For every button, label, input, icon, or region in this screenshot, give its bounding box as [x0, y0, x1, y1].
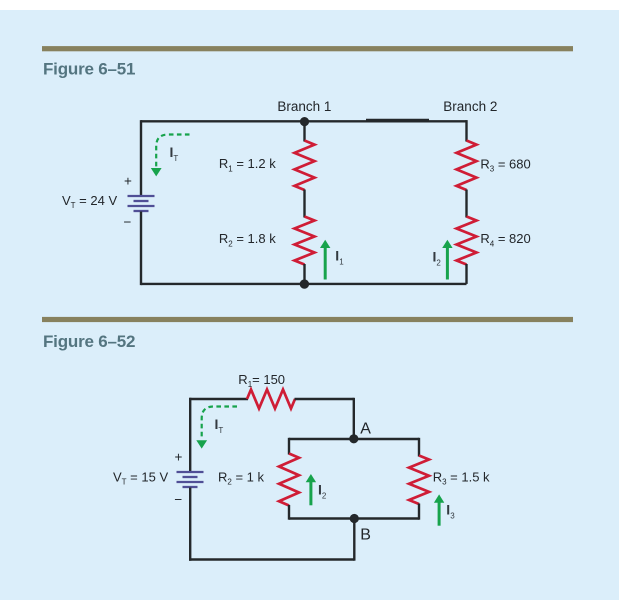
resistor R2 (1.8 k): [295, 217, 315, 265]
svg-text:Branch 1: Branch 1: [277, 99, 331, 114]
svg-text:−: −: [174, 492, 182, 507]
current arrow IT dashed (circuit 1): [151, 135, 190, 177]
svg-text:B: B: [360, 526, 371, 543]
wire: top horizontal of circuit 1: [141, 120, 467, 122]
wire: bottom horizontal of circuit 1: [141, 283, 467, 285]
resistor R2 (1 k): [279, 454, 299, 506]
svg-text:R4 = 820: R4 = 820: [480, 231, 530, 248]
rule above Figure 6-52: [42, 317, 573, 322]
svg-text:R2 = 1 k: R2 = 1 k: [218, 469, 265, 486]
current arrow I2 (circuit 1): [442, 240, 452, 280]
resistor R1 (1.2 k): [295, 141, 315, 191]
wire: branch 2 top stub: [465, 120, 467, 141]
svg-text:R2 = 1.8 k: R2 = 1.8 k: [219, 231, 276, 248]
current arrow I2 (circuit 2): [306, 474, 316, 505]
battery VT (24 V source): [128, 196, 155, 211]
node: top junction of Branch 1: [300, 117, 309, 126]
wire: right vertical down to node A: [353, 398, 355, 439]
wire: branch 1 bottom stub: [303, 264, 305, 284]
svg-text:R1= 150: R1= 150: [238, 372, 285, 389]
svg-text:I1: I1: [335, 248, 344, 267]
wire: left vertical below battery VT: [140, 212, 142, 286]
node B junction: [350, 514, 359, 523]
wire: inner rect bottom (node B tie): [289, 517, 419, 519]
svg-text:A: A: [360, 420, 371, 437]
wire: inner rect right bottom stub from R3: [418, 504, 420, 520]
svg-text:IT: IT: [170, 144, 179, 163]
wire: inner rect top (node A tie): [289, 438, 419, 440]
resistor R4 (820): [457, 217, 477, 265]
svg-text:−: −: [124, 215, 132, 230]
wire: left vertical above battery VT: [140, 120, 142, 195]
svg-text:I3: I3: [446, 502, 455, 521]
svg-text:Figure 6–52: Figure 6–52: [43, 332, 135, 351]
resistor R3 (680): [457, 141, 477, 191]
svg-text:I2: I2: [318, 482, 327, 501]
svg-text:R1 = 1.2 k: R1 = 1.2 k: [219, 156, 276, 173]
wire: left vertical below battery VT (circuit 2): [189, 488, 191, 561]
wire: bottom horizontal (circuit 2): [189, 558, 354, 560]
svg-text:IT: IT: [215, 416, 224, 435]
svg-text:I2: I2: [433, 249, 442, 268]
current arrow I3 (circuit 2): [434, 494, 444, 525]
wire: branch 2 between R3 and R4: [465, 190, 467, 218]
svg-text:Branch 2: Branch 2: [443, 99, 497, 114]
rule above Figure 6-51: [42, 46, 573, 51]
wire: overlapping top segment artifact: [366, 119, 429, 121]
current arrow IT dashed (circuit 2): [196, 407, 237, 449]
wire: top horizontal from R1 to right corner (circuit 2): [295, 398, 354, 400]
wire: top-left horizontal to R1 (circuit 2): [190, 398, 249, 400]
wire: inner rect left bottom stub from R2: [288, 505, 290, 520]
svg-text:+: +: [124, 173, 132, 188]
current arrow I1: [320, 240, 330, 280]
wire: inner rect left top stub to R2: [288, 438, 290, 455]
resistor R1 (150) horizontal: [247, 390, 295, 409]
svg-text:Figure 6–51: Figure 6–51: [43, 60, 135, 79]
node A junction: [349, 434, 358, 443]
svg-text:+: +: [175, 449, 183, 464]
wire: inner rect right top stub to R3: [418, 438, 420, 457]
wire: branch 1 top stub: [303, 121, 305, 141]
wire: branch 1 between R1 and R2: [303, 190, 305, 218]
svg-text:R3 = 1.5 k: R3 = 1.5 k: [433, 469, 490, 486]
svg-text:R3 = 680: R3 = 680: [480, 156, 530, 173]
battery VT (15 V source): [177, 472, 204, 487]
wire: vertical from node B down to bottom wire: [353, 519, 355, 561]
svg-text:VT = 24 V: VT = 24 V: [62, 193, 117, 210]
wire: left vertical above battery VT (circuit 2): [189, 398, 191, 471]
resistor R3 (1.5 k): [409, 456, 429, 505]
node: bottom junction of Branch 1: [300, 279, 309, 288]
svg-text:VT = 15 V: VT = 15 V: [113, 469, 168, 486]
wire: branch 2 bottom stub: [465, 264, 467, 284]
